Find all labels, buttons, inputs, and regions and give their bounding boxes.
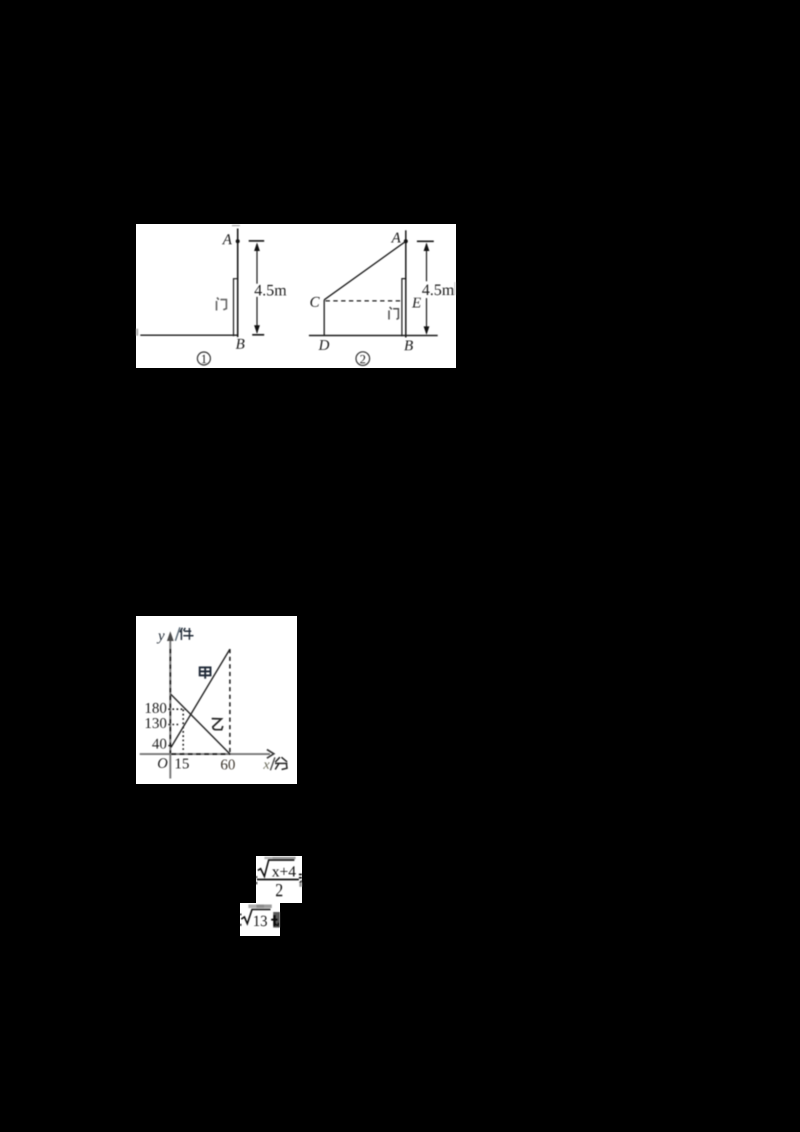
- diagram 2: dashed line CE: [326, 299, 403, 301]
- diagram 1: wall line AB: [237, 228, 239, 337]
- label /jian: [175, 627, 180, 641]
- dark grey block: [273, 912, 280, 928]
- formula: sqrt(13): [240, 903, 280, 936]
- y axis dashed overlay: [169, 649, 171, 754]
- diagram 2: 4.5m label: [422, 284, 454, 295]
- label x/fen: [263, 762, 269, 768]
- diagram 1: grey tick at top of wall: [232, 224, 240, 226]
- left edge ticks: [256, 876, 257, 878]
- x axis dashed overlay: [171, 753, 230, 755]
- grey bar above radical: [248, 905, 256, 909]
- line yi (falling): [170, 694, 229, 753]
- label 40: [152, 739, 166, 749]
- diagram 1: 4.5m label: [255, 284, 287, 295]
- diagram 2: door glyph (men): [389, 307, 398, 320]
- 13: [254, 916, 267, 926]
- figure: geometry diagrams 1 and 2: [136, 224, 456, 369]
- diagram 2: ladder line AC: [324, 241, 406, 299]
- label 60: [221, 759, 235, 769]
- diagram 2: label E: [412, 297, 421, 307]
- diagram 1: door rectangle: [234, 278, 238, 336]
- diagram 2: wall line AB: [405, 230, 407, 337]
- dotted vertical at x=15: [182, 710, 184, 753]
- dotted horizontal at y=130: [168, 724, 180, 726]
- diagram 1: point A dot: [236, 239, 240, 243]
- diagram 2: ground line: [309, 334, 438, 336]
- formula: sqrt(x+4)/2: [256, 856, 302, 904]
- diagram 2: circled 2: [356, 351, 370, 365]
- diagram 2: label D: [318, 340, 329, 350]
- label y: [156, 633, 164, 643]
- label 130: [145, 718, 166, 728]
- radical sign: [258, 860, 295, 876]
- diagram 1: label B: [236, 338, 245, 348]
- diagram 2: dimension line 4.5m: [426, 244, 428, 281]
- dashed vertical at x=60: [228, 649, 230, 754]
- black glyph on block: [273, 915, 275, 926]
- label jia (CJK): [199, 667, 210, 678]
- figure: line graph: [136, 616, 297, 784]
- diagram 2: label B: [404, 340, 413, 350]
- fraction bar: [257, 878, 299, 880]
- grey bar above radical: [264, 856, 272, 858]
- diagram 1: label A: [222, 234, 232, 244]
- numerator x+4: [272, 866, 296, 876]
- diagram 2: faint tick right of label: [454, 282, 455, 295]
- diagram 2: label C: [310, 296, 319, 306]
- label 180: [145, 703, 166, 713]
- diagram 1: grey tick at left edge: [136, 328, 138, 335]
- diagram 1: ground line: [140, 334, 237, 336]
- cut equals mark at right edge: [299, 873, 302, 875]
- y axis: [169, 634, 171, 779]
- diagram 2: door rectangle: [402, 278, 406, 336]
- left edge ticks: [240, 914, 241, 916]
- diagram 2: line CD: [323, 299, 325, 335]
- line jia (rising): [171, 649, 230, 747]
- x axis: [139, 753, 269, 755]
- label O: [158, 758, 167, 768]
- diagram 1: door glyph (men): [217, 297, 227, 310]
- dotted horizontal at y=180: [168, 708, 185, 710]
- diagram 2: point A dot: [404, 239, 408, 243]
- diagram 1: circled 1: [197, 352, 210, 365]
- diagram 1: dimension line 4.5m: [256, 244, 258, 284]
- tick at 40: [168, 745, 171, 747]
- label 15: [175, 759, 188, 769]
- diagram 2: label A: [391, 232, 401, 242]
- x axis arrow: [266, 750, 273, 759]
- radical sign: [241, 910, 270, 924]
- label yi (CJK): [211, 719, 222, 730]
- denominator 2: [276, 884, 282, 896]
